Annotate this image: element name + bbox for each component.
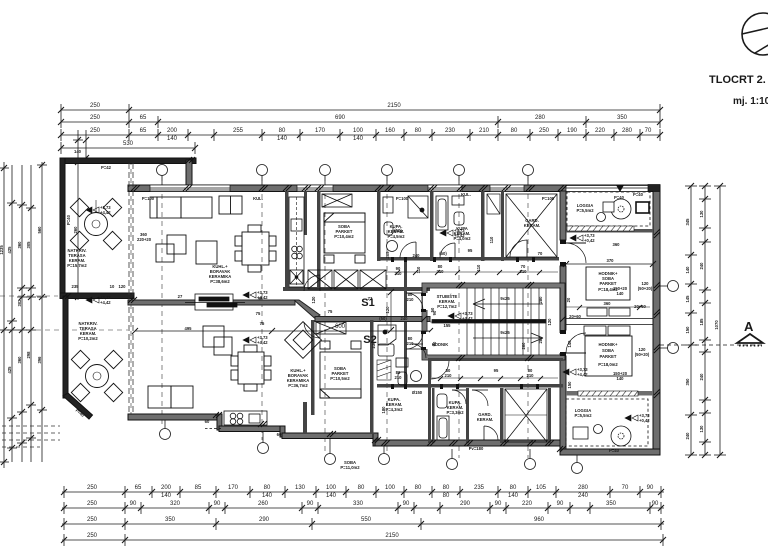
svg-text:TLOCRT 2.: TLOCRT 2. bbox=[709, 74, 766, 86]
svg-text:425: 425 bbox=[7, 246, 12, 254]
door arc S2 hall bbox=[304, 322, 320, 338]
terrace2 label bbox=[78, 321, 98, 341]
wall soba-s2 right bbox=[370, 320, 374, 434]
axis circles top bbox=[157, 165, 534, 191]
svg-text:120: 120 bbox=[547, 318, 552, 326]
svg-text:P=100: P=100 bbox=[542, 196, 555, 201]
svg-text:mj. 1:10: mj. 1:10 bbox=[733, 96, 768, 107]
svg-text:65: 65 bbox=[140, 115, 147, 121]
svg-text:+4,42: +4,42 bbox=[257, 340, 268, 345]
svg-text:75: 75 bbox=[328, 309, 333, 314]
svg-text:A: A bbox=[744, 319, 754, 334]
svg-text:140: 140 bbox=[567, 340, 572, 348]
S1/S2 divider wall with diagonal bbox=[128, 300, 430, 322]
S1 S2 labels bbox=[361, 297, 376, 346]
svg-text:180: 180 bbox=[381, 406, 386, 414]
label living S1 bbox=[209, 264, 232, 284]
svg-text:2150: 2150 bbox=[387, 103, 401, 109]
svg-text:+4,42: +4,42 bbox=[100, 300, 111, 305]
corridor wall S1 bbox=[377, 257, 563, 261]
svg-text:90: 90 bbox=[495, 501, 502, 507]
svg-text:KERAM.: KERAM. bbox=[524, 223, 541, 228]
svg-text:425: 425 bbox=[7, 366, 12, 374]
wall soba-s2 left bbox=[311, 320, 315, 415]
svg-text:70: 70 bbox=[538, 251, 543, 256]
svg-text:210: 210 bbox=[407, 297, 415, 302]
corridor door labels bbox=[395, 264, 528, 276]
svg-text:P=42: P=42 bbox=[101, 165, 112, 170]
partition S2 bbox=[303, 402, 307, 434]
svg-text:360: 360 bbox=[604, 301, 612, 306]
svg-text:530: 530 bbox=[123, 141, 134, 147]
svg-text:2150: 2150 bbox=[385, 533, 399, 539]
label living S2 bbox=[185, 326, 310, 388]
loggia bottom bbox=[566, 399, 648, 453]
room1 dims bbox=[563, 242, 656, 309]
right column walls bbox=[566, 229, 653, 396]
svg-text:210: 210 bbox=[407, 341, 415, 346]
svg-text:1235: 1235 bbox=[0, 245, 4, 255]
bath3 S2 lower bbox=[437, 390, 466, 440]
svg-text:1070: 1070 bbox=[714, 320, 719, 330]
svg-text:210: 210 bbox=[520, 269, 528, 274]
svg-text:220: 220 bbox=[595, 128, 606, 134]
main top wall bbox=[128, 185, 660, 192]
svg-text:P=11,0m2: P=11,0m2 bbox=[340, 465, 360, 470]
svg-text:110: 110 bbox=[489, 236, 494, 243]
north symbol circle bbox=[742, 13, 768, 55]
door jamb blocks bbox=[391, 240, 566, 389]
svg-text:90: 90 bbox=[432, 310, 437, 315]
svg-text:90: 90 bbox=[647, 485, 654, 491]
svg-text:P=40: P=40 bbox=[66, 214, 71, 225]
svg-text:P=10,4m2: P=10,4m2 bbox=[334, 234, 354, 239]
svg-text:210: 210 bbox=[445, 373, 453, 378]
svg-text:+0,42: +0,42 bbox=[639, 418, 650, 423]
svg-text:140: 140 bbox=[277, 136, 288, 142]
dim line vertical 120 bbox=[388, 289, 394, 333]
svg-text:170: 170 bbox=[228, 485, 239, 491]
corridor hatch piece bbox=[377, 360, 391, 380]
corridor door arc below stairs bbox=[431, 361, 449, 379]
right exterior wall bbox=[653, 185, 660, 455]
svg-text:210: 210 bbox=[395, 375, 403, 380]
svg-text:298: 298 bbox=[26, 351, 31, 359]
svg-text:20+60: 20+60 bbox=[569, 314, 581, 319]
svg-text:140: 140 bbox=[167, 136, 178, 142]
title TLOCRT 2. bbox=[709, 74, 768, 107]
svg-text:240: 240 bbox=[413, 253, 421, 258]
svg-text:+4,42: +4,42 bbox=[454, 233, 465, 238]
svg-text:90: 90 bbox=[403, 501, 410, 507]
svg-text:P=4,3m2: P=4,3m2 bbox=[385, 407, 403, 412]
svg-text:90: 90 bbox=[130, 501, 137, 507]
svg-text:9x25: 9x25 bbox=[500, 296, 510, 301]
svg-text:145: 145 bbox=[685, 295, 690, 303]
right dimension lines bbox=[685, 183, 726, 458]
bath s2 divider bbox=[432, 388, 435, 443]
600 dim bbox=[269, 324, 433, 334]
svg-text:100: 100 bbox=[353, 128, 364, 134]
svg-text:370: 370 bbox=[607, 258, 615, 263]
sofa S1 bbox=[150, 197, 212, 218]
svg-text:150: 150 bbox=[567, 381, 572, 389]
svg-text:360: 360 bbox=[17, 356, 22, 364]
svg-text:Ø150: Ø150 bbox=[412, 390, 423, 395]
stair treads bbox=[467, 288, 546, 355]
loggia bottom sill hatch bbox=[578, 391, 638, 396]
bottom wall segment west bbox=[128, 414, 221, 420]
svg-text:170: 170 bbox=[315, 128, 326, 134]
diamond table S2 bbox=[285, 322, 322, 359]
top dimension 530 bbox=[58, 130, 198, 161]
svg-text:140: 140 bbox=[508, 493, 519, 499]
svg-text:290: 290 bbox=[259, 517, 270, 523]
wall junction ticks bbox=[62, 157, 660, 452]
svg-text:130: 130 bbox=[699, 425, 704, 433]
svg-text:360: 360 bbox=[613, 242, 621, 247]
svg-text:80: 80 bbox=[510, 485, 517, 491]
svg-text:70: 70 bbox=[622, 485, 629, 491]
svg-text:110: 110 bbox=[476, 264, 481, 271]
svg-text:200: 200 bbox=[167, 128, 178, 134]
room1 label box bbox=[586, 267, 630, 300]
svg-text:260: 260 bbox=[73, 226, 78, 234]
level marker arrows bbox=[86, 205, 650, 423]
svg-text:235: 235 bbox=[474, 485, 485, 491]
door arcs right column bbox=[559, 243, 586, 353]
terrace left wall upper bbox=[60, 158, 65, 298]
svg-text:KUL.: KUL. bbox=[461, 192, 471, 197]
corridor wall S2 south bbox=[377, 384, 563, 388]
kitchen S1 bbox=[289, 197, 304, 287]
svg-text:110: 110 bbox=[416, 266, 421, 273]
svg-text:250: 250 bbox=[87, 533, 98, 539]
svg-text:80: 80 bbox=[358, 485, 365, 491]
svg-text:280: 280 bbox=[535, 115, 546, 121]
svg-text:P=12,7m2: P=12,7m2 bbox=[437, 304, 457, 309]
svg-text:250: 250 bbox=[87, 485, 98, 491]
bottom step 4 loggia bbox=[560, 446, 565, 455]
495 dim bbox=[132, 328, 272, 334]
svg-text:60: 60 bbox=[205, 419, 210, 424]
closet S1 living bbox=[219, 196, 242, 214]
svg-text:90: 90 bbox=[652, 501, 659, 507]
room1 dim 360 line bbox=[566, 301, 650, 310]
svg-text:P=38,6m2: P=38,6m2 bbox=[210, 279, 230, 284]
entry doors stairwell bbox=[406, 293, 429, 349]
hall wall S1 bbox=[283, 287, 430, 291]
svg-text:280: 280 bbox=[538, 336, 543, 344]
axis circles right bbox=[660, 281, 679, 354]
svg-text:250: 250 bbox=[87, 517, 98, 523]
left bottom dashed bbox=[2, 426, 60, 447]
svg-text:350: 350 bbox=[165, 517, 176, 523]
level tick loggia top bbox=[616, 185, 624, 192]
svg-text:P=5,5m2: P=5,5m2 bbox=[576, 208, 594, 213]
terrace diagonal wall bbox=[63, 393, 93, 419]
svg-text:Pv=180: Pv=180 bbox=[469, 446, 484, 451]
bed S1 soba bbox=[324, 213, 365, 263]
svg-text:+4,42: +4,42 bbox=[462, 316, 473, 321]
svg-text:150: 150 bbox=[685, 326, 690, 334]
svg-text:(50+20): (50+20) bbox=[635, 352, 650, 357]
sliding door in divider bbox=[185, 294, 245, 310]
room with arcs S2 bbox=[472, 390, 498, 440]
bottom step 3 bbox=[373, 433, 378, 446]
svg-text:65: 65 bbox=[135, 485, 142, 491]
wall connector top-left bbox=[186, 160, 192, 190]
svg-text:P=36,7m2: P=36,7m2 bbox=[288, 383, 308, 388]
svg-text:10: 10 bbox=[110, 284, 115, 289]
svg-text:360: 360 bbox=[17, 241, 22, 249]
loggia top bbox=[567, 192, 650, 226]
bottom dimension row 2 bbox=[61, 502, 664, 514]
closet S2 bbox=[316, 322, 346, 334]
svg-text:320: 320 bbox=[170, 501, 181, 507]
svg-text:80: 80 bbox=[415, 485, 422, 491]
top dimension row 1 bbox=[58, 104, 663, 116]
dining table S2 bbox=[231, 345, 271, 391]
loggia top sill hatch bbox=[567, 226, 634, 231]
svg-text:155: 155 bbox=[444, 323, 452, 328]
bottom dimension row 1 bbox=[61, 486, 664, 498]
bed S2 bbox=[320, 341, 361, 398]
svg-text:210: 210 bbox=[527, 373, 535, 378]
terrace table lower bbox=[71, 350, 122, 401]
terrace left wall lower bbox=[63, 296, 68, 398]
svg-text:HODNIK+: HODNIK+ bbox=[599, 342, 619, 347]
svg-text:73: 73 bbox=[368, 296, 373, 301]
svg-text:65: 65 bbox=[140, 128, 147, 134]
kitchen S2 bbox=[205, 411, 267, 429]
svg-text:90: 90 bbox=[432, 341, 437, 346]
S2 walls bbox=[311, 320, 563, 443]
svg-text:(50): (50) bbox=[379, 316, 387, 321]
svg-text:210: 210 bbox=[395, 271, 403, 276]
svg-text:210: 210 bbox=[437, 269, 445, 274]
stair mid rail bbox=[432, 320, 546, 324]
svg-text:27: 27 bbox=[178, 294, 183, 299]
svg-text:+4,42: +4,42 bbox=[100, 210, 111, 215]
svg-text:140: 140 bbox=[262, 493, 273, 499]
svg-text:255: 255 bbox=[233, 128, 244, 134]
svg-text:SOBA: SOBA bbox=[602, 348, 614, 353]
corridor S2 labels bbox=[340, 342, 534, 470]
svg-text:90: 90 bbox=[258, 296, 263, 301]
wardrobe x-room S2 bbox=[505, 389, 547, 442]
svg-text:130: 130 bbox=[295, 485, 306, 491]
top dimension row 3 bbox=[58, 129, 663, 141]
svg-text:302: 302 bbox=[17, 299, 22, 307]
svg-text:P=10,2m2: P=10,2m2 bbox=[78, 336, 98, 341]
svg-text:75: 75 bbox=[260, 321, 265, 326]
svg-text:230: 230 bbox=[371, 341, 376, 349]
svg-text:80: 80 bbox=[443, 485, 450, 491]
svg-text:20+60: 20+60 bbox=[634, 304, 646, 309]
svg-text:(50): (50) bbox=[439, 251, 447, 256]
svg-text:290: 290 bbox=[460, 501, 471, 507]
svg-text:120: 120 bbox=[119, 284, 127, 289]
svg-text:240: 240 bbox=[401, 316, 409, 321]
terrace dims bbox=[66, 165, 152, 418]
svg-text:P=3,3m2: P=3,3m2 bbox=[446, 410, 464, 415]
misc small dims bbox=[142, 196, 571, 437]
svg-text:140: 140 bbox=[326, 493, 337, 499]
svg-text:250: 250 bbox=[87, 501, 98, 507]
svg-text:80: 80 bbox=[415, 128, 422, 134]
wall soba left bbox=[317, 191, 321, 288]
bottom step 1 bbox=[217, 414, 222, 430]
wall below stairs (corridor) bbox=[430, 358, 563, 361]
glass wall terrace edge dashed double bbox=[129, 163, 133, 412]
svg-text:396: 396 bbox=[37, 356, 42, 364]
svg-text:330: 330 bbox=[353, 501, 364, 507]
svg-text:80: 80 bbox=[264, 485, 271, 491]
svg-text:190: 190 bbox=[567, 128, 578, 134]
svg-text:350: 350 bbox=[685, 378, 690, 386]
corridor dim line S1 bbox=[386, 270, 558, 275]
svg-text:85: 85 bbox=[195, 485, 202, 491]
svg-text:185: 185 bbox=[699, 318, 704, 326]
svg-text:+4,42: +4,42 bbox=[577, 372, 588, 377]
svg-text:560: 560 bbox=[37, 226, 42, 234]
svg-text:P=4,5m2: P=4,5m2 bbox=[387, 234, 405, 239]
terrace1 label bbox=[67, 248, 87, 268]
closets between room1 room2 bbox=[566, 308, 653, 335]
svg-text:350: 350 bbox=[606, 501, 617, 507]
svg-text:200: 200 bbox=[161, 485, 172, 491]
extra tiny labels bbox=[178, 192, 644, 414]
spine wall right column bbox=[560, 191, 566, 449]
bottom dimension row 3 bbox=[61, 518, 664, 530]
svg-text:P=100: P=100 bbox=[142, 196, 155, 201]
bottom step 2 bbox=[280, 426, 285, 437]
svg-text:60: 60 bbox=[277, 432, 282, 437]
svg-text:95: 95 bbox=[494, 368, 499, 373]
wall kitchen right partial bbox=[304, 191, 307, 235]
svg-text:280: 280 bbox=[538, 296, 543, 304]
svg-text:260: 260 bbox=[258, 501, 269, 507]
wall soba right / bath left bbox=[377, 191, 381, 261]
svg-text:240: 240 bbox=[578, 493, 589, 499]
coffee tables S1 bbox=[156, 235, 217, 264]
svg-text:350: 350 bbox=[617, 115, 628, 121]
svg-text:120: 120 bbox=[311, 296, 316, 304]
svg-text:230: 230 bbox=[445, 128, 456, 134]
bottom dimension row 4 bbox=[61, 534, 666, 546]
wall shaft right bbox=[501, 191, 504, 261]
wall bath divider bbox=[430, 191, 434, 261]
stair landing texts bbox=[437, 294, 552, 335]
corridor dim line S2 bbox=[432, 376, 558, 381]
section marker A with dashed line bbox=[660, 319, 763, 346]
svg-text:960: 960 bbox=[534, 517, 545, 523]
corridor closets S1 bbox=[308, 270, 386, 289]
svg-text:70: 70 bbox=[645, 128, 652, 134]
svg-text:KERAM.: KERAM. bbox=[477, 417, 494, 422]
svg-text:140: 140 bbox=[617, 376, 625, 381]
svg-text:80: 80 bbox=[511, 128, 518, 134]
svg-text:140: 140 bbox=[685, 266, 690, 274]
svg-text:280: 280 bbox=[622, 128, 633, 134]
svg-text:690: 690 bbox=[335, 115, 346, 121]
corridor west wall bbox=[404, 258, 407, 388]
svg-text:80: 80 bbox=[279, 128, 286, 134]
windows in top wall bbox=[150, 185, 660, 192]
svg-text:100: 100 bbox=[385, 485, 396, 491]
svg-text:KUL.: KUL. bbox=[253, 196, 263, 201]
svg-text:80: 80 bbox=[443, 493, 450, 499]
svg-text:(50+20): (50+20) bbox=[638, 286, 653, 291]
svg-text:P=18,0m2: P=18,0m2 bbox=[598, 362, 618, 367]
svg-text:210: 210 bbox=[479, 128, 490, 134]
svg-text:600: 600 bbox=[335, 324, 346, 330]
svg-text:90: 90 bbox=[214, 501, 221, 507]
svg-text:100: 100 bbox=[326, 485, 337, 491]
wall bath-s2 block right bbox=[428, 358, 431, 443]
svg-text:240: 240 bbox=[699, 373, 704, 381]
svg-text:345: 345 bbox=[685, 218, 690, 226]
svg-text:140: 140 bbox=[161, 493, 172, 499]
stair block bbox=[422, 283, 565, 360]
svg-text:105: 105 bbox=[536, 485, 547, 491]
svg-text:140: 140 bbox=[353, 136, 364, 142]
svg-text:495: 495 bbox=[185, 326, 193, 331]
wall kitchen left bbox=[285, 191, 289, 291]
svg-text:130: 130 bbox=[699, 210, 704, 218]
svg-text:75: 75 bbox=[256, 311, 261, 316]
svg-text:P=100: P=100 bbox=[396, 196, 409, 201]
svg-text:120: 120 bbox=[385, 306, 390, 314]
label soba s1 bbox=[334, 224, 354, 239]
sofa S2 bbox=[148, 386, 193, 408]
stair up arrows bbox=[473, 299, 543, 343]
terrace divider wall bbox=[60, 293, 134, 299]
svg-text:250: 250 bbox=[90, 115, 101, 121]
svg-text:240: 240 bbox=[685, 432, 690, 440]
closet S1 soba bbox=[322, 194, 352, 207]
svg-text:PARKET: PARKET bbox=[600, 354, 617, 359]
svg-text:+0,42: +0,42 bbox=[584, 238, 595, 243]
door arc S1 hall bbox=[304, 275, 320, 291]
left dimension lines bbox=[0, 130, 83, 468]
svg-text:P=40: P=40 bbox=[614, 195, 625, 200]
svg-text:235: 235 bbox=[72, 284, 80, 289]
wall bath2 right bbox=[481, 191, 485, 261]
axis dashed verticals bbox=[0, 160, 528, 458]
exterior walls bbox=[60, 158, 660, 455]
bath2 S1 bbox=[436, 196, 471, 258]
top dimension row 2 bbox=[58, 116, 663, 128]
svg-text:160: 160 bbox=[385, 128, 396, 134]
interior walls S1 bbox=[283, 191, 563, 388]
axis circles bottom bbox=[160, 420, 583, 474]
svg-text:240: 240 bbox=[699, 262, 704, 270]
svg-text:P=5,5m2: P=5,5m2 bbox=[574, 413, 592, 418]
svg-text:20: 20 bbox=[566, 297, 571, 302]
svg-text:250: 250 bbox=[90, 128, 101, 134]
bath S2 block bbox=[378, 316, 426, 412]
svg-text:550: 550 bbox=[361, 517, 372, 523]
square table S2 bbox=[203, 326, 232, 355]
svg-text:260: 260 bbox=[521, 342, 526, 350]
terrace top wall bbox=[60, 158, 196, 164]
svg-text:(50): (50) bbox=[394, 228, 402, 233]
svg-text:90: 90 bbox=[557, 501, 564, 507]
svg-text:220+20: 220+20 bbox=[137, 237, 152, 242]
svg-text:P=40: P=40 bbox=[609, 448, 620, 453]
